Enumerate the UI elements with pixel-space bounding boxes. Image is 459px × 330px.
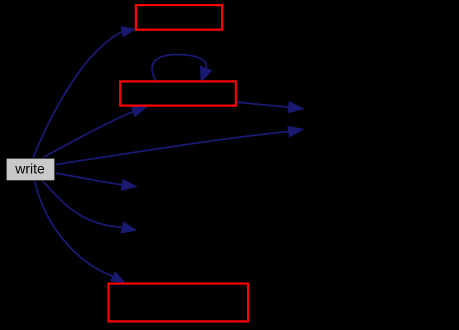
wire middle node to right arrow (237, 102, 304, 113)
bottom node box (109, 284, 249, 322)
top node box (136, 5, 222, 30)
wire write to bottom node (35, 181, 125, 283)
wire write to second short arrow (43, 181, 137, 233)
node write (6, 158, 55, 181)
wire write to lower right arrow (55, 126, 303, 164)
svg-text:write: write (14, 161, 45, 177)
middle node box (120, 81, 236, 105)
wire write to middle node (43, 106, 147, 157)
wire write to first short arrow (55, 173, 136, 190)
wire write to top node (33, 27, 135, 158)
wire middle node self loop (152, 55, 212, 82)
